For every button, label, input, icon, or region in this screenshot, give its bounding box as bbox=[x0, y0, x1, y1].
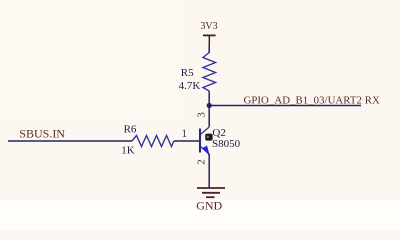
wire power to R5 bbox=[208, 46, 210, 53]
overlay icon (dark badge) bbox=[205, 134, 212, 141]
power rail 3V3 bar symbol bbox=[203, 34, 216, 36]
svg-text:2: 2 bbox=[196, 159, 208, 165]
power rail stem bbox=[208, 35, 210, 46]
transistor Q2 emitter arrow bbox=[203, 146, 210, 156]
svg-text:4.7K: 4.7K bbox=[179, 80, 201, 92]
junction node bbox=[207, 103, 212, 108]
resistor R5 bbox=[203, 53, 216, 92]
transistor Q2 emitter lead bbox=[201, 147, 210, 154]
svg-text:GND: GND bbox=[196, 199, 222, 213]
wire node to net label GPIO bbox=[209, 105, 361, 107]
transistor Q2 base bar bbox=[199, 129, 201, 153]
svg-text:3V3: 3V3 bbox=[200, 21, 217, 32]
wire R5 to node bbox=[208, 91, 210, 106]
svg-text:3: 3 bbox=[196, 112, 208, 118]
transistor Q2 collector lead bbox=[201, 127, 210, 134]
svg-text:SBUS.IN: SBUS.IN bbox=[19, 126, 65, 140]
svg-text:1K: 1K bbox=[121, 144, 135, 156]
svg-text:Q2: Q2 bbox=[212, 127, 225, 139]
ground bbox=[197, 188, 225, 197]
base wire from SBUS.IN bbox=[8, 140, 132, 142]
svg-text:S8050: S8050 bbox=[212, 138, 241, 150]
svg-text:GPIO_AD_B1_03/UART2 RX: GPIO_AD_B1_03/UART2 RX bbox=[244, 94, 380, 106]
wire node to collector bbox=[208, 106, 210, 128]
resistor R6 bbox=[132, 136, 174, 147]
svg-text:R5: R5 bbox=[181, 67, 194, 79]
wire R6 to base bbox=[174, 140, 199, 142]
emitter wire to GND bbox=[208, 154, 210, 188]
svg-text:1: 1 bbox=[181, 128, 187, 140]
svg-text:R6: R6 bbox=[124, 123, 137, 135]
